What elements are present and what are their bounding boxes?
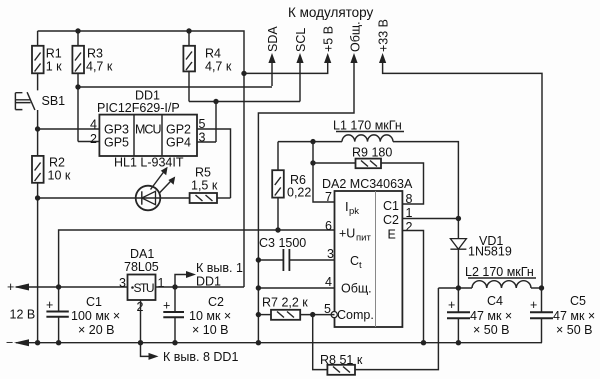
svg-text:GP3: GP3 <box>104 123 129 137</box>
svg-text:DD1: DD1 <box>196 275 221 289</box>
wire DA1 output <box>156 286 245 288</box>
svg-text:100 мк ×: 100 мк × <box>71 309 120 323</box>
svg-text:К выв. 1: К выв. 1 <box>196 261 243 275</box>
svg-text:C2: C2 <box>208 295 224 309</box>
resistor R4 <box>183 31 231 102</box>
svg-text:R3: R3 <box>87 47 103 61</box>
inductor L1 <box>278 119 458 239</box>
svg-text:+: + <box>7 280 14 294</box>
node R6 bottom junction <box>275 227 280 232</box>
svg-text:C1: C1 <box>383 199 399 213</box>
svg-text:47 мк ×: 47 мк × <box>470 309 512 323</box>
node R7 right / comp <box>310 312 315 317</box>
wire +5V arrow feed <box>244 62 328 73</box>
svg-text:pk: pk <box>349 206 359 217</box>
node L2 left / C4 <box>456 285 461 290</box>
svg-text:R7 2,2 к: R7 2,2 к <box>262 296 308 310</box>
svg-text:4: 4 <box>325 275 332 289</box>
wire +5V top rail <box>38 31 244 287</box>
svg-text:GP2: GP2 <box>166 123 191 137</box>
svg-text:4,7 к: 4,7 к <box>86 60 113 74</box>
IC DA2 MC34063A <box>322 177 413 327</box>
svg-text:−: − <box>6 336 13 350</box>
svg-text:0,22: 0,22 <box>287 186 311 200</box>
node R3/SDA junction <box>75 84 80 89</box>
wire pin 1 to switch node <box>402 218 458 220</box>
node ground rail junctions <box>35 340 40 345</box>
svg-text:R9 180: R9 180 <box>352 146 392 160</box>
capacitor C1 <box>46 287 120 343</box>
svg-text:C: C <box>350 254 359 268</box>
svg-text:C2: C2 <box>383 213 399 227</box>
svg-text:+: + <box>46 298 53 312</box>
svg-text:2: 2 <box>90 132 97 146</box>
svg-text:SCL: SCL <box>294 28 308 52</box>
svg-text:STU: STU <box>134 281 155 295</box>
svg-text:× 50 В: × 50 В <box>473 323 510 337</box>
svg-text:L2 170 мкГн: L2 170 мкГн <box>465 265 534 279</box>
wire Ipk riser pin 7 <box>313 142 335 202</box>
svg-text:L1 170 мкГн: L1 170 мкГн <box>333 119 402 133</box>
svg-text:DA1: DA1 <box>130 247 154 261</box>
node R7 left <box>256 312 261 317</box>
svg-text:R4: R4 <box>205 47 221 61</box>
svg-text:C5: C5 <box>570 294 586 308</box>
svg-text:t: t <box>359 260 362 271</box>
node C3 left <box>256 257 261 262</box>
svg-text:10 к: 10 к <box>48 169 71 183</box>
svg-text:+U: +U <box>339 227 355 241</box>
node pin4 ground junction <box>256 285 261 290</box>
wire DA1 pin 2 to ground <box>141 300 151 356</box>
svg-text:Comp.: Comp. <box>337 308 374 322</box>
svg-text:1 к: 1 к <box>46 60 62 74</box>
capacitor C4 <box>447 288 512 343</box>
wire SDA net (R3 to arrow) <box>78 86 272 88</box>
node L1/R9/pin7 junctions <box>310 139 315 144</box>
svg-text:× 10 В: × 10 В <box>192 323 229 337</box>
svg-text:8: 8 <box>406 192 413 206</box>
svg-text:78L05: 78L05 <box>124 260 159 274</box>
svg-text:1: 1 <box>158 276 165 290</box>
terminal SDA arrow <box>271 62 273 86</box>
node +5V rail/feed junction <box>241 71 246 76</box>
resistor R3 <box>72 31 112 142</box>
wire pin 4 ground stub <box>258 287 334 289</box>
terminal +5 В arrow <box>324 53 331 63</box>
terminal Общ. arrow <box>258 62 354 343</box>
node LED/ground column <box>35 195 40 200</box>
inductor L2 <box>438 265 542 288</box>
svg-text:× 20 В: × 20 В <box>78 323 115 337</box>
terminal +33 В arrow <box>383 62 542 288</box>
svg-text:× 50 В: × 50 В <box>556 323 593 337</box>
svg-text:R2: R2 <box>49 156 65 170</box>
svg-text:+: + <box>530 298 537 312</box>
arrow К выв. 1 DD1 <box>175 261 243 289</box>
svg-text:HL1 L-934IT: HL1 L-934IT <box>114 156 184 170</box>
resistor R1 <box>32 31 62 90</box>
wire GP4 riser <box>215 102 217 143</box>
svg-text:+5 В: +5 В <box>322 26 336 52</box>
node SB1/R2/GP3 junction <box>35 126 40 131</box>
wire GP5 (R3 column to pin 2) <box>78 141 99 143</box>
svg-text:R1: R1 <box>46 47 62 61</box>
diode VD1 1N5819 <box>450 234 511 288</box>
terminal ground arrow <box>6 336 542 350</box>
switch SB1 <box>15 92 65 129</box>
svg-text:пит: пит <box>356 233 371 244</box>
svg-text:12 В: 12 В <box>10 308 36 322</box>
svg-text:1N5819: 1N5819 <box>468 245 512 259</box>
capacitor C5 <box>530 288 595 343</box>
IC DA1 78L05 <box>119 247 165 314</box>
svg-text:GP5: GP5 <box>104 136 129 150</box>
svg-text:2: 2 <box>406 220 413 234</box>
IC DD1 PIC12F629 <box>90 89 206 157</box>
node C1 top <box>56 284 61 289</box>
terminal +12V input arrow <box>7 280 128 322</box>
svg-text:R5: R5 <box>195 166 211 180</box>
svg-text:E: E <box>388 228 396 242</box>
svg-text:SB1: SB1 <box>42 94 66 108</box>
node R4 top <box>186 28 191 33</box>
resistor R7 <box>258 296 334 320</box>
svg-text:C1: C1 <box>86 295 102 309</box>
svg-text:PIC12F629-I/P: PIC12F629-I/P <box>97 101 180 115</box>
svg-text:К выв. 8 DD1: К выв. 8 DD1 <box>163 350 238 364</box>
svg-text:+: + <box>163 299 170 313</box>
resistor R9 <box>313 146 424 205</box>
resistor R6 <box>272 142 311 230</box>
terminal SCL arrow <box>299 62 301 102</box>
wire SCL net (R4 to arrow) <box>189 101 300 103</box>
svg-text:Общ.: Общ. <box>341 282 372 296</box>
svg-text:К модулятору: К модулятору <box>288 5 374 20</box>
svg-text:C3 1500: C3 1500 <box>259 236 306 250</box>
node DA1 out / C2 <box>172 284 177 289</box>
resistor R8 <box>313 288 439 375</box>
svg-text:4,7 к: 4,7 к <box>205 60 232 74</box>
svg-text:GP4: GP4 <box>166 136 191 150</box>
svg-text:3: 3 <box>327 247 334 261</box>
capacitor C2 <box>163 287 231 343</box>
wire pin 2 to ground <box>402 231 423 343</box>
svg-text:1,5 к: 1,5 к <box>191 179 218 193</box>
resistor R2 <box>32 129 71 343</box>
svg-text:4: 4 <box>90 118 97 132</box>
svg-text:47 мк ×: 47 мк × <box>553 309 595 323</box>
wire GP2 pin5 to R5 <box>197 129 231 198</box>
svg-text:Общ.: Общ. <box>349 21 363 52</box>
wire +12V riser to pin 6 <box>59 230 335 287</box>
node pin1/diode column <box>456 216 461 221</box>
svg-text:7: 7 <box>325 190 332 204</box>
node SCL/GP4 junction <box>213 99 218 104</box>
svg-text:SDA: SDA <box>266 26 280 52</box>
node R3 top <box>75 28 80 33</box>
svg-text:+: + <box>448 298 455 312</box>
svg-text:+33 В: +33 В <box>377 19 391 52</box>
LED HL1 <box>38 156 190 211</box>
node L2 right / C5 <box>539 285 544 290</box>
wire GP3 (button to pin 4) <box>38 128 100 130</box>
wire GP4 pin3 stub <box>197 141 216 143</box>
resistor R5 <box>190 166 231 204</box>
svg-text:3: 3 <box>119 276 126 290</box>
capacitor C3 <box>258 236 334 271</box>
svg-text:MCU: MCU <box>135 123 162 137</box>
arrow К выв. 8 DD1 <box>149 350 239 364</box>
svg-text:10 мк ×: 10 мк × <box>189 309 231 323</box>
svg-text:C4: C4 <box>487 294 503 308</box>
svg-text:DA2 MC34063A: DA2 MC34063A <box>322 177 413 191</box>
svg-text:6: 6 <box>325 219 332 233</box>
